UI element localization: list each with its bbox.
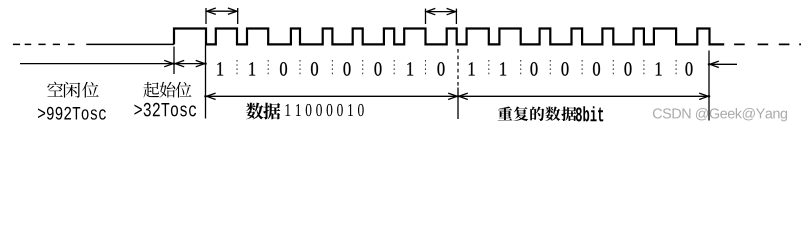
extension line at start-bit fall (x=205.5) — [205, 46, 207, 119]
label 数据 — [246, 103, 263, 120]
idle dashed line (left lead-in) — [13, 43, 75, 45]
label >32Tosc — [134, 105, 141, 115]
data span dimension line — [206, 95, 709, 97]
label 8bit — [576, 107, 582, 121]
top tick right of bit-period arrow — [237, 8, 239, 24]
extension line at start-bit rise (x=174) — [173, 47, 175, 75]
top tick left of bit-period arrow — [205, 8, 207, 24]
idle dashed line (right tail) — [734, 43, 801, 45]
top tick right of second arrow — [455, 9, 457, 24]
top tick left of second arrow — [425, 9, 427, 24]
extension line at x=458 (lower solid part) — [457, 88, 459, 120]
bit period double arrow (top left) — [206, 10, 238, 12]
bit values group 2 — [469, 62, 475, 75]
dotted bit-cell separators — [237, 60, 676, 77]
label >992Tosc — [38, 108, 45, 118]
bit period double arrow (top middle) — [426, 11, 457, 13]
arrow tip dots — [173, 62, 176, 65]
watermark CSDN @Geek@Yang — [653, 108, 662, 118]
start-bit dimension arrows (>32Tosc) — [175, 60, 184, 66]
bit values group 1 — [217, 62, 223, 75]
idle-period dimension line (>992Tosc) — [20, 63, 206, 65]
label 重复的数据 — [498, 107, 513, 121]
dashed group separator at x=458 — [457, 49, 459, 88]
extension line at end of data (x=709) — [708, 51, 710, 121]
idle solid low line — [86, 43, 174, 45]
right stub arrow at end of data row — [709, 63, 737, 65]
waveform pulse train (start bit + 16 data bits) — [174, 29, 724, 45]
label 起始位 — [143, 82, 159, 98]
label 11000010 — [285, 104, 290, 116]
label 空闲位 — [47, 82, 63, 97]
